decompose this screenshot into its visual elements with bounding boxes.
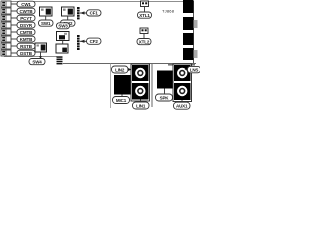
svg-text:LIN2: LIN2 xyxy=(115,67,125,72)
jumper block JP1 xyxy=(56,44,68,53)
connector J2 xyxy=(1,8,11,14)
jack stack JK2 outline xyxy=(173,64,192,102)
connector J5 xyxy=(1,29,11,35)
label J6 xyxy=(17,36,35,42)
svg-text:CWTB: CWTB xyxy=(20,9,34,14)
component U2 (black module) xyxy=(114,75,131,95)
svg-text:AUX1: AUX1 xyxy=(176,104,188,109)
connector J3 xyxy=(1,15,11,21)
bracket connector B4 xyxy=(183,48,194,60)
svg-text:CF1: CF1 xyxy=(90,11,99,16)
svg-text:SPK: SPK xyxy=(160,95,170,100)
label J2 xyxy=(17,8,35,14)
label Y2 xyxy=(137,39,151,45)
wire xyxy=(11,24,17,26)
svg-text:RSTB: RSTB xyxy=(20,44,33,49)
connector J8 xyxy=(1,50,11,56)
connector J7 xyxy=(1,43,11,49)
svg-text:PCYT: PCYT xyxy=(20,16,32,21)
pin header CF1 pins xyxy=(77,7,80,19)
board bottom edge right xyxy=(63,63,196,65)
switch SW2 xyxy=(62,7,75,16)
switch SW4 xyxy=(35,43,47,52)
label J7 xyxy=(17,43,35,49)
wire xyxy=(11,45,17,47)
svg-text:MIC1: MIC1 xyxy=(116,98,127,103)
wire xyxy=(181,100,183,102)
jack JK1A xyxy=(132,65,149,81)
bottom cluster left outline xyxy=(110,64,112,109)
jack JK1B xyxy=(132,83,149,100)
board bottom edge left xyxy=(4,56,57,58)
bracket nub xyxy=(194,50,198,58)
label SPK xyxy=(156,94,173,101)
jack stack JK1 outline xyxy=(131,64,150,101)
wire xyxy=(144,7,146,13)
wire xyxy=(45,16,47,20)
svg-text:CF2: CF2 xyxy=(90,39,99,44)
wire xyxy=(67,16,69,20)
svg-text:XTL1: XTL1 xyxy=(139,13,150,18)
svg-text:XTL2: XTL2 xyxy=(139,39,150,44)
label J1 xyxy=(17,1,35,7)
label J8 xyxy=(17,50,35,56)
wire xyxy=(11,38,17,40)
connector J1 xyxy=(1,1,11,7)
svg-text:TJ868: TJ868 xyxy=(162,9,175,14)
connector J6 xyxy=(1,36,11,42)
wire xyxy=(11,31,17,33)
svg-text:SW4: SW4 xyxy=(32,59,42,64)
pin header P1 xyxy=(57,56,63,64)
board top edge xyxy=(6,1,194,3)
wire xyxy=(11,10,17,12)
switch SW3 xyxy=(57,32,70,41)
wire xyxy=(11,52,17,54)
crystal Y1 xyxy=(141,1,149,7)
wire xyxy=(143,34,145,39)
label SW2 xyxy=(61,20,76,26)
svg-text:SW1: SW1 xyxy=(41,21,51,26)
wire arrow xyxy=(80,11,87,14)
wire xyxy=(121,95,123,97)
label LNS xyxy=(185,66,201,72)
crystal Y2 xyxy=(140,28,148,34)
wire xyxy=(62,41,64,45)
wire to SW4 label xyxy=(40,52,42,59)
svg-text:KMTB: KMTB xyxy=(20,37,33,42)
wire xyxy=(164,89,166,95)
switch SW1 xyxy=(40,7,53,16)
label J4 xyxy=(17,22,35,28)
label Y1 xyxy=(138,12,152,18)
label SW1 xyxy=(39,20,54,26)
label SW3 xyxy=(57,23,70,29)
bottom cluster mid outline xyxy=(151,64,153,107)
label LIN1 xyxy=(133,102,150,109)
bracket connector B2 xyxy=(183,17,194,30)
board right edge (bracket) xyxy=(193,1,195,64)
label J3 xyxy=(17,15,35,21)
bottom edge thick segment xyxy=(168,64,195,66)
svg-text:CMTB: CMTB xyxy=(20,30,33,35)
svg-text:SW3: SW3 xyxy=(58,24,68,29)
label CF2 xyxy=(87,38,102,44)
label J5 xyxy=(17,29,35,35)
label MIC1 xyxy=(113,97,130,104)
wire arrow xyxy=(80,40,87,43)
jack JK2A xyxy=(174,65,191,81)
component U3 (black module) xyxy=(157,71,173,89)
label SW4 xyxy=(29,59,45,65)
label LIN2 xyxy=(112,66,133,73)
bracket connector B3 xyxy=(183,33,194,45)
pin header CF2 pins xyxy=(77,35,80,50)
label CF1 xyxy=(87,10,102,16)
bracket connector B1 xyxy=(183,0,194,13)
wire xyxy=(11,3,17,5)
svg-text:LNS: LNS xyxy=(190,67,199,72)
bracket nub xyxy=(194,20,198,28)
wire xyxy=(140,100,142,103)
jack JK2B xyxy=(174,83,191,100)
wire xyxy=(11,17,17,19)
svg-text:DSYR: DSYR xyxy=(20,23,33,28)
connector J4 xyxy=(1,22,11,28)
svg-text:DSTB: DSTB xyxy=(20,51,33,56)
svg-text:LIN1: LIN1 xyxy=(136,103,146,108)
label AUX1 xyxy=(174,102,191,109)
svg-text:CW1: CW1 xyxy=(21,2,31,7)
